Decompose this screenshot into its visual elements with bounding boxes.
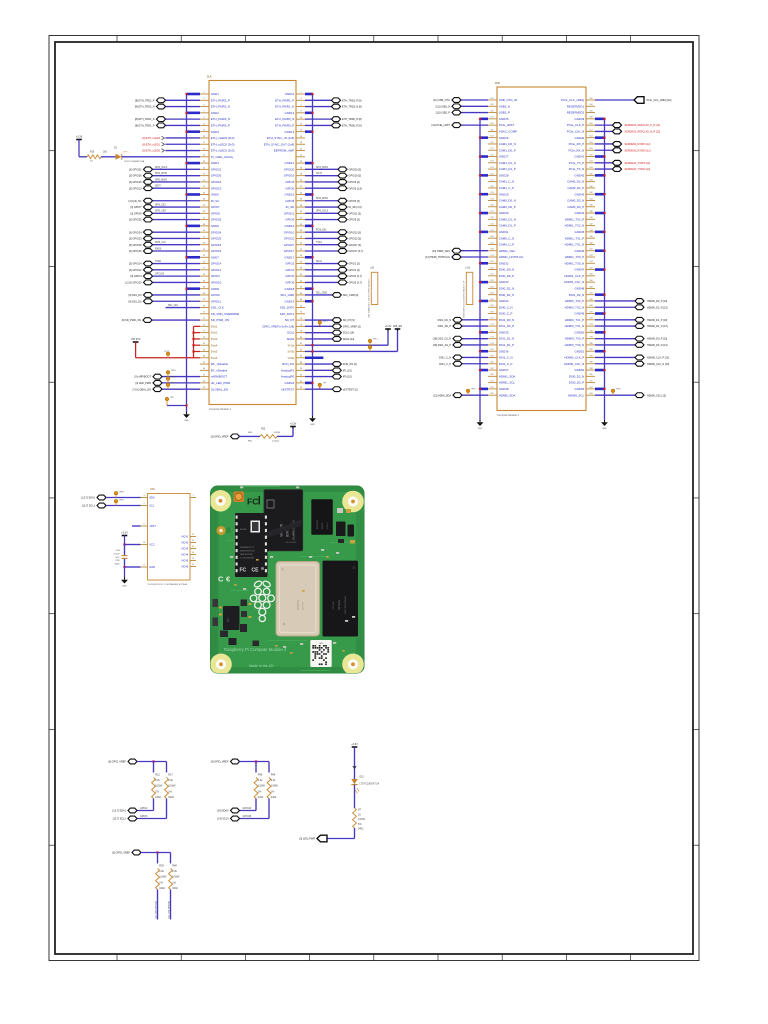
wire GND stub J1A R row 0 [305, 93, 314, 95]
power flag +3.3V (LED D1 circuit) [76, 136, 83, 157]
J1B pin R48 HDMI0_SCL [568, 393, 595, 397]
svg-text:J1A: J1A [207, 74, 212, 78]
svg-text:DSI0_C_N: DSI0_C_N [499, 305, 513, 309]
svg-text:SPI0_MISO: SPI0_MISO [155, 179, 167, 181]
wire GND stub J1B R row 24 [595, 250, 606, 252]
wire GND stub J1B R row 37 [595, 331, 606, 333]
svg-text:MICRON: MICRON [317, 520, 319, 529]
J1B pin R3 RESERVED2 [567, 110, 595, 114]
wire GND stub J1A L row 21 [185, 225, 200, 227]
svg-text:5Va6: 5Va6 [211, 356, 218, 360]
svg-text:SDA1: SDA1 [316, 260, 323, 263]
svg-text:HDMI0_SCL [13]: HDMI0_SCL [13] [647, 394, 666, 397]
svg-text:TP17: TP17 [323, 321, 329, 323]
svg-text:1/16W: 1/16W [155, 785, 163, 788]
svg-text:[14] SCL0: [14] SCL0 [217, 818, 229, 821]
J1B pin L25 HDMI1_CEC [488, 249, 516, 253]
svg-text:GPIO2: GPIO2 [285, 262, 294, 266]
wire GND stub J1B L row 6 [479, 137, 488, 139]
wire + off-page connector [8] ETH_TRD1_P (J1A left row 5) [135, 123, 200, 128]
wire GND stub J1A L row 3 [185, 112, 200, 114]
svg-text:[3] GPIO8: [3] GPIO8 [130, 212, 142, 215]
ground symbol left J1B [477, 420, 484, 430]
svg-text:[9] SD_PWR_ON: [9] SD_PWR_ON [122, 319, 142, 322]
svg-text:GND49: GND49 [575, 312, 585, 316]
svg-text:uJ9: uJ9 [370, 267, 375, 270]
wire GND stub J1B L row 29 [479, 281, 488, 283]
J1A pin L20 GPIO8 [200, 211, 220, 215]
svg-text:HDMI1_TX0_N: HDMI1_TX0_N [565, 261, 585, 265]
svg-text:R48: R48 [172, 865, 177, 868]
wire + red label [8] ETH_nLED0 (J1A left row 9) [142, 149, 200, 153]
svg-text:2.2k: 2.2k [271, 779, 276, 782]
svg-text:DSI1_D0_N: DSI1_D0_N [438, 319, 452, 322]
svg-text:DSI1_D0_N: DSI1_D0_N [499, 318, 514, 322]
J1B pin L4 GND25 [488, 117, 509, 121]
svg-text:HDMI0_TX2_N: HDMI0_TX2_N [565, 305, 585, 309]
J1B pin R9 PCIe_RX_N [568, 148, 595, 152]
J1A pin R48 nEXTRST [281, 387, 305, 391]
svg-text:RPi4B: RPi4B [240, 529, 247, 531]
svg-text:GND7: GND7 [211, 255, 219, 259]
wire GND stub J1B L row 15 [479, 193, 488, 195]
svg-text:X7R: X7R [115, 560, 120, 562]
svg-text:PI_nLED_Activity: PI_nLED_Activity [211, 155, 234, 159]
LED D15 [351, 777, 379, 794]
svg-text:GPIO7: GPIO7 [211, 205, 220, 209]
J1B pin L30 GND33 [488, 280, 509, 284]
svg-text:uSD CARD DET 1v8-3v3 GPIO SELE: uSD CARD DET 1v8-3v3 GPIO SELECT [368, 278, 371, 318]
svg-text:GND: GND [149, 565, 155, 569]
J1A pin L4 GND2 [200, 111, 219, 115]
svg-text:RASPBERRY PI: RASPBERRY PI [240, 546, 254, 549]
wire + off-page connector [9] SD1_D3 (J1A left row 32) [129, 293, 200, 298]
svg-text:1%: 1% [90, 161, 93, 163]
wire GND stub J1B R row 31 [595, 294, 606, 296]
J1B pin R12 PCIe_TX_N [569, 167, 595, 171]
U16 pin GND [141, 565, 156, 569]
U16 pin nRST [141, 524, 157, 528]
svg-text:[11] USB2_P: [11] USB2_P [436, 112, 451, 115]
off-page connector GPIO_VREF (J20 circuit) [211, 434, 240, 439]
svg-text:SPI1_MISO: SPI1_MISO [316, 167, 328, 169]
wire + off-page connector SERDES0_REFCLK0_P_R [12] [595, 123, 660, 128]
J1A pin R46 AnalogIP0 [281, 375, 305, 379]
J1B pin R13 GND42 [575, 173, 595, 177]
svg-text:GPIO19 [3]: GPIO19 [3] [349, 175, 362, 178]
J1A pin L13 GPIO21 [200, 167, 222, 171]
svg-text:SCL: SCL [149, 504, 155, 508]
J1B pin R45 DSI0_D2_N [569, 374, 595, 378]
U16 pin NC43 [182, 546, 196, 550]
wire + off-page connector [13] HDMI_CEC (J1B left row 24) [432, 248, 488, 253]
U16 pin SDA [141, 495, 155, 499]
svg-text:HDMI0_D1_N [13]: HDMI0_D1_N [13] [647, 325, 668, 328]
svg-text:5Va1: 5Va1 [211, 324, 218, 328]
svg-text:GPIO23: GPIO23 [211, 237, 222, 241]
svg-text:NC46: NC46 [182, 565, 189, 569]
svg-text:SERDES0_REFCLK0_N_R [12]: SERDES0_REFCLK0_N_R [12] [625, 131, 661, 134]
svg-text:TP13: TP13 [373, 339, 379, 341]
svg-text:HDMI0_SCL: HDMI0_SCL [568, 393, 585, 397]
svg-text:HDMI1_TX2_N: HDMI1_TX2_N [565, 224, 585, 228]
svg-text:GND32: GND32 [499, 261, 509, 265]
wire GND stub J1B R row 43 [595, 369, 606, 371]
J1B pin R10 GND41 [575, 154, 595, 158]
svg-text:SDA0 [14]: SDA0 [14] [343, 338, 355, 341]
J1B pin L37 DSI1_D0_P [488, 324, 514, 328]
J1B pin R16 GND43 [575, 192, 595, 196]
svg-text:0402: 0402 [258, 796, 264, 799]
svg-text:GPIO10: GPIO10 [284, 230, 295, 234]
J1A pin R47 GND24 [285, 381, 305, 385]
J1A pin R8 ETH_SYNC_IN (1v8) [267, 136, 305, 140]
ground symbol right J1B [601, 420, 608, 430]
svg-text:GPIO5 [3]: GPIO5 [3] [349, 200, 360, 203]
svg-text:IP1 [15]: IP1 [15] [343, 369, 352, 372]
wire GND stub J1B L row 26 [479, 262, 488, 264]
svg-text:HDMI0_CLK_P [13]: HDMI0_CLK_P [13] [647, 357, 669, 360]
wire + off-page connector [3] GPIO13 (J1A left row 15) [129, 186, 200, 191]
svg-text:VIN 5V0: VIN 5V0 [131, 338, 141, 341]
svg-text:[13,7] SCL1: [13,7] SCL1 [82, 505, 96, 508]
svg-text:GND29: GND29 [499, 192, 509, 196]
wire GND stub J1B R row 21 [595, 231, 606, 233]
svg-text:GND26: GND26 [499, 136, 509, 140]
svg-text:5Va2: 5Va2 [211, 331, 218, 335]
svg-text:0402: 0402 [115, 564, 121, 566]
svg-text:DSI0_D2_P: DSI0_D2_P [569, 381, 584, 385]
J1A pin L18 ID_SC [200, 199, 219, 203]
wire + off-page connector DSI1_D0_N (J1B left row 35) [438, 317, 488, 322]
svg-text:GND51: GND51 [575, 349, 585, 353]
off-page connector [14] SCL0 [217, 816, 239, 821]
svg-text:PCIe_RX_N: PCIe_RX_N [568, 148, 584, 152]
wire 5Va stub row 37 [194, 325, 201, 327]
wire + off-page connector GPIO9 [3] (J1A right row 20) [305, 217, 360, 222]
wire 5Va stub row 40 [192, 344, 200, 346]
svg-text:I2C1?: I2C1? [316, 173, 323, 175]
J1B pin R28 GND47 [575, 267, 595, 271]
svg-text:GND48: GND48 [575, 287, 585, 291]
svg-text:GPIO1 [3]: GPIO1 [3] [349, 269, 360, 272]
svg-text:GPIO20 [3]: GPIO20 [3] [349, 168, 362, 171]
svg-text:SD1_CLK: SD1_CLK [211, 306, 224, 310]
svg-text:2.2k: 2.2k [172, 870, 177, 873]
svg-text:SD_PWR_ON: SD_PWR_ON [211, 318, 229, 322]
J1B pin R25 GND46 [575, 249, 595, 253]
tag LED_PWR [299, 835, 327, 842]
wire + off-page connector [12] PCIE_nRST (J1B left row 4) [432, 123, 488, 128]
svg-text:SERDES0_RX0N0 [12]: SERDES0_RX0N0 [12] [625, 149, 651, 152]
J1B pin L22 GND31 [488, 230, 509, 234]
J1B pin L14 CAM1_C_N [488, 180, 514, 184]
LED D1 [114, 147, 145, 163]
svg-text:HDMI1_CEC: HDMI1_CEC [499, 249, 516, 253]
svg-text:GPIO44: GPIO44 [243, 807, 252, 810]
svg-text:SDA0: SDA0 [287, 337, 295, 341]
wire GND stub J1A L row 6 [185, 131, 200, 133]
svg-text:CAM0_D1_P: CAM0_D1_P [499, 224, 516, 228]
svg-text:[3] GPIO13: [3] GPIO13 [129, 187, 142, 190]
net label SD0? [155, 186, 161, 188]
J1B pin L34 DSI0_C_N [488, 305, 513, 309]
svg-text:GND45: GND45 [575, 230, 585, 234]
J1A pin L34 GPIO11 [200, 299, 221, 303]
J1B pin R21 HDMI1_TX2_N [565, 224, 595, 228]
svg-text:1V8a: 1V8a [287, 356, 294, 360]
J1B pin L44 GND37 [488, 368, 509, 372]
svg-text:[11] USB_OTG: [11] USB_OTG [433, 99, 450, 102]
svg-text:ETH_PAIR0_N: ETH_PAIR0_N [275, 117, 294, 121]
net label SPI1_MISO [316, 167, 328, 169]
wire GND stub J1B R row 9 [595, 155, 606, 157]
wire + off-page connector RUN_PG [2] (J1A right row 43) [305, 362, 357, 367]
J1B pin R23 HDMI1_TX1_P [565, 236, 595, 240]
test point TP14 [368, 345, 378, 352]
net label PCM_CLK [155, 242, 166, 244]
svg-text:GPIO5 [3,7]: GPIO5 [3,7] [349, 282, 363, 285]
J1A pin L47 uR_LED_PWR [200, 381, 230, 385]
wire + off-page connector [3] GPIO15 (J1A left row 25) [129, 249, 200, 254]
test point TP17 [318, 321, 329, 327]
svg-text:GPIO2: GPIO2 [140, 807, 148, 810]
J1B pin R26 HDMI1_TX0_P [565, 255, 595, 259]
wire + off-page connector IP1 [15] (J1A right row 44) [305, 368, 352, 373]
wire R53 to +3.3V [277, 427, 293, 437]
wire PCIe_CLK_nREQ [595, 99, 634, 101]
svg-text:TP56: TP56 [119, 500, 125, 502]
svg-text:GND46: GND46 [575, 249, 585, 253]
wire GND stub J1A L row 0 [185, 93, 200, 95]
J1A pin R7 GND13 [285, 130, 305, 134]
svg-text:1K: 1K [358, 813, 361, 816]
svg-text:GND13: GND13 [285, 130, 295, 134]
svg-text:GND28: GND28 [499, 173, 509, 177]
svg-text:CAM1_D1_N: CAM1_D1_N [499, 161, 516, 165]
svg-text:1/10W: 1/10W [358, 818, 366, 821]
U16 pin VCC [141, 542, 155, 546]
svg-text:CAM0_D0_N: CAM0_D0_N [499, 199, 516, 203]
wire + off-page connector SDA0 [14] (J1A right row 39) [305, 337, 355, 342]
svg-text:GPIO9 [3]: GPIO9 [3] [349, 219, 360, 222]
wire + off-page connector [8] ETH_TRD2_N (J1A left row 2) [135, 104, 200, 109]
J1A pin L26 GPIO15 [200, 249, 222, 253]
svg-text:[3] GPIO_VREF: [3] GPIO_VREF [108, 761, 126, 764]
svg-text:CD_TMS GPIO45: CD_TMS GPIO45 [155, 900, 157, 918]
J1B pin R32 DSI1_D2_N [569, 293, 595, 297]
svg-text:HDMI0_TX1_P: HDMI0_TX1_P [565, 318, 585, 322]
svg-text:PCIe_TX_N: PCIe_TX_N [569, 167, 584, 171]
J1A pin R18 GPIO5 [285, 199, 305, 203]
J1A pin R9 ETH_SYNC_OUT (1v8) [264, 142, 305, 146]
svg-text:SD1_DAT1: SD1_DAT1 [280, 312, 295, 316]
wire LED feed [79, 156, 87, 158]
wire + red label [8] ETH_nLED3 (J1A left row 7) [142, 136, 200, 140]
svg-text:GND12: GND12 [285, 111, 295, 115]
svg-text:GND19: GND19 [285, 299, 295, 303]
off-page connector SD_PWR_ON [122, 318, 200, 323]
U16 pin NC46 [182, 564, 196, 568]
svg-text:Compute Module 4: Compute Module 4 [209, 407, 231, 411]
svg-text:R46: R46 [271, 774, 276, 777]
svg-text:+3.3V: +3.3V [351, 743, 358, 746]
svg-text:ETH_SYNC_OUT (1v8): ETH_SYNC_OUT (1v8) [264, 142, 295, 146]
J1A pin L2 ETH_PAIR2_P [200, 98, 230, 102]
svg-text:GPIO11: GPIO11 [284, 211, 295, 215]
wire + off-page connector GPIO17 [3,7] (J1A right row 25) [305, 249, 363, 254]
svg-text:2ABCB-RPI4B: 2ABCB-RPI4B [240, 553, 253, 556]
svg-text:+3.3V: +3.3V [121, 532, 128, 535]
wire GND stub J1B L row 9 [479, 155, 488, 157]
svg-text:50V: 50V [116, 557, 120, 559]
svg-text:GPIO10: GPIO10 [211, 281, 222, 285]
svg-text:GND42: GND42 [575, 173, 585, 177]
svg-text:HDMI0_SDA: HDMI0_SDA [499, 393, 516, 397]
J1B pin R37 HDMI0_TX1_N [565, 324, 595, 328]
wire GND stub J1B R row 18 [595, 212, 606, 214]
J1A pin R14 GPIO19 [284, 174, 305, 178]
svg-text:GND6: GND6 [211, 224, 219, 228]
J1A pin R45 AnalogIP1 [281, 368, 305, 372]
wire + off-page connector SD1_CMD [9] (J1A right row 32) [305, 293, 359, 298]
svg-text:[9] SD1_D0: [9] SD1_D0 [129, 300, 143, 303]
svg-text:GPIO11 [3]: GPIO11 [3] [349, 212, 362, 215]
wire + off-page connector ETH_TRD3_N [8] (J1A right row 2) [305, 104, 362, 109]
svg-text:[8] ETH_TRD2_P: [8] ETH_TRD2_P [135, 99, 155, 102]
wire + off-page connector [2,10] GPIO10 (J1A left row 30) [126, 280, 200, 285]
svg-text:ETH_PAIR2_P: ETH_PAIR2_P [211, 98, 230, 102]
wire GND stub J1B L row 18 [479, 212, 488, 214]
svg-text:GND31: GND31 [499, 230, 509, 234]
J1A pin R28 GPIO2 [285, 261, 305, 265]
svg-text:uR_LED_PWR: uR_LED_PWR [211, 381, 230, 385]
svg-text:[13,7] SDA1: [13,7] SDA1 [82, 497, 96, 500]
svg-text:[3,9] ID_SC: [3,9] ID_SC [129, 200, 142, 203]
svg-text:1/16W: 1/16W [168, 785, 176, 788]
J1A pin L48 GLOBAL_EN [200, 387, 228, 391]
J1A pin R4 GND12 [285, 111, 305, 115]
resistor R17 [165, 774, 176, 799]
svg-text:USB2_N: USB2_N [499, 104, 510, 108]
net label GPCLK0 [155, 274, 165, 276]
test point TP7 [318, 383, 327, 390]
J1A pin L6 ETH_PAIR3_P [200, 123, 230, 127]
J1B pin R27 HDMI1_TX0_N [565, 261, 595, 265]
svg-text:2.2k: 2.2k [168, 779, 173, 782]
off-page connector [X] nRPIBOOT [135, 374, 200, 379]
svg-text:NC41: NC41 [182, 535, 189, 539]
svg-text:GPIO0: GPIO0 [285, 274, 294, 278]
J1A pin L40 5Va3 [200, 337, 218, 341]
J1A pin L21 GPIO25 [200, 218, 222, 222]
svg-text:HDMI0_TX2_P: HDMI0_TX2_P [565, 299, 585, 303]
J1B pin L43 DSI1_C_P [488, 362, 513, 366]
svg-text:GND25: GND25 [499, 117, 509, 121]
wire + off-page connector GPIO10 [3] (J1A right row 22) [305, 230, 361, 235]
J1B pin R1 PCIe_CLK_nREQ [561, 98, 595, 102]
wire 5Va stub row 42 [194, 357, 201, 359]
wire + off-page connector HDMI0_CLK_N [13] [595, 361, 669, 366]
J1B pin R20 HDMI1_TX2_P [565, 217, 595, 221]
svg-text:[13] HDMI_SDA: [13] HDMI_SDA [433, 394, 451, 397]
svg-text:[8] ETH_TRD1_N: [8] ETH_TRD1_N [135, 118, 155, 121]
svg-text:VDAC_COMP: VDAC_COMP [499, 130, 517, 134]
svg-text:RXD0: RXD0 [155, 248, 162, 250]
svg-text:GND50: GND50 [575, 330, 585, 334]
J1A pin R13 GPIO20 [284, 167, 305, 171]
svg-text:IC 20953-RPI4B: IC 20953-RPI4B [240, 558, 255, 560]
svg-text:GND14: GND14 [285, 161, 295, 165]
wire GND stub J1B L row 43 [479, 369, 488, 371]
svg-text:ETH_PAIR0_P: ETH_PAIR0_P [275, 124, 294, 128]
svg-text:HDMI1_TX1_N: HDMI1_TX1_N [565, 243, 585, 247]
svg-text:GND18: GND18 [285, 287, 295, 291]
svg-text:GPIO1: GPIO1 [285, 268, 294, 272]
wire GND stub J1B R row 34 [595, 312, 606, 314]
svg-text:HDMI1_TX0_P: HDMI1_TX0_P [565, 255, 585, 259]
svg-text:GND39: GND39 [575, 117, 585, 121]
svg-text:[3] GPIO23: [3] GPIO23 [129, 238, 142, 241]
svg-text:HDMI0_D1_P [13]: HDMI0_D1_P [13] [647, 319, 668, 322]
off-page connector [3] LED_PWR [135, 380, 200, 385]
J1A pin R24 GPIO22 [284, 236, 305, 240]
power flag +3.3V (J20) [290, 423, 297, 429]
svg-text:GPIO18: GPIO18 [211, 243, 222, 247]
J1B pin R14 CAM0_D2_N [567, 180, 595, 184]
wire + off-page connector [16] DSI1_D1_N (J1B left row 38) [433, 336, 488, 341]
svg-text:ETH_PAIR1_P: ETH_PAIR1_P [275, 98, 294, 102]
J1B pin L24 CAM0_C_P [488, 242, 514, 246]
wire + off-page connector ETH_TRD0_N [8] (J1A right row 4) [305, 117, 362, 122]
ground symbol left J1A [183, 412, 190, 422]
J1A pin L17 GND5 [200, 192, 219, 196]
test point TP9 [166, 383, 175, 390]
wire GND stub J1B R row 46 [595, 388, 606, 390]
wire + off-page connector HDMI0_D0_N [13] [595, 343, 668, 348]
svg-text:+3.3V: +3.3V [385, 325, 392, 328]
wire + off-page connector GPIO11 [3] (J1A right row 19) [305, 211, 361, 216]
svg-text:[13,7] SCL1: [13,7] SCL1 [113, 818, 127, 821]
wire + off-page connector [3] GPIO16 (J1A left row 14) [129, 180, 200, 185]
J1A pin R3 ETH_PAIR1_N [275, 104, 305, 108]
wire + off-page connector GPIO20 [3] (J1A right row 12) [305, 167, 361, 172]
svg-text:GPIO12: GPIO12 [211, 268, 222, 272]
svg-text:PCM_CLK: PCM_CLK [155, 242, 166, 244]
svg-text:GPIO27 [3]: GPIO27 [3] [349, 244, 362, 247]
svg-text:GPIO_VREF(+3v3/+1v8): GPIO_VREF(+3v3/+1v8) [262, 324, 294, 328]
J1A pin R32 GND18 [285, 287, 305, 291]
wire divider top [240, 760, 270, 772]
svg-text:FC: FC [240, 568, 247, 574]
J1A pin L10 ETH_nLED1 (3v3) [200, 148, 234, 152]
svg-text:[8] ETH_nLED3: [8] ETH_nLED3 [142, 137, 160, 140]
J1B pin R34 HDMI0_TX2_N [565, 305, 595, 309]
svg-text:HDMI1_TX1_P: HDMI1_TX1_P [565, 236, 585, 240]
J1A pin L23 GPIO24 [200, 230, 222, 234]
J1A pin L32 GND8 [200, 287, 219, 291]
wire + off-page connector [13] HDMI_SDA (J1B left row 47) [433, 393, 488, 398]
wire GND stub J1A R row 31 [305, 288, 314, 290]
wire GND stub J1B R row 12 [595, 174, 606, 176]
svg-text:CAM0_D0_P: CAM0_D0_P [499, 205, 516, 209]
test point TP8 [165, 397, 187, 407]
J1B pin L13 GND28 [488, 173, 509, 177]
svg-text:ETH_nLED2 (3v3): ETH_nLED2 (3v3) [211, 142, 235, 146]
svg-text:GPIO25: GPIO25 [211, 218, 222, 222]
svg-text:SPI0_MOSI: SPI0_MOSI [155, 173, 167, 175]
svg-text:SD1_CMD: SD1_CMD [280, 293, 294, 297]
